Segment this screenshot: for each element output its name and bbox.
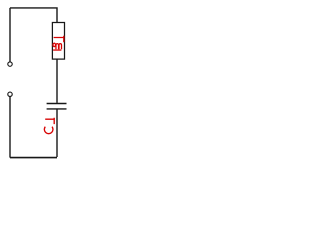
- capacitor C1 top plate: [47, 103, 67, 105]
- label R1 : glyph 1 (rotated): [54, 36, 65, 43]
- wire left upper (port 1 lead): [9, 8, 11, 62]
- label C1 : glyph C (rotated, opening up): [44, 127, 53, 134]
- label R1 : glyph R (rotated): [53, 43, 62, 50]
- wire left lower (port 2 lead): [9, 97, 11, 158]
- terminal P1 (open circle): [8, 62, 12, 66]
- label C1 : glyph 1 (rotated): [45, 118, 55, 124]
- wire bottom: [10, 157, 57, 159]
- terminal P2 (open circle): [8, 92, 12, 96]
- wire top: [10, 8, 57, 23]
- capacitor C1 bottom plate: [47, 108, 67, 110]
- resistor R1 body: [52, 23, 64, 60]
- wire right lower (C1 to bottom corner): [56, 109, 58, 157]
- wire R1 to C1: [56, 59, 58, 103]
